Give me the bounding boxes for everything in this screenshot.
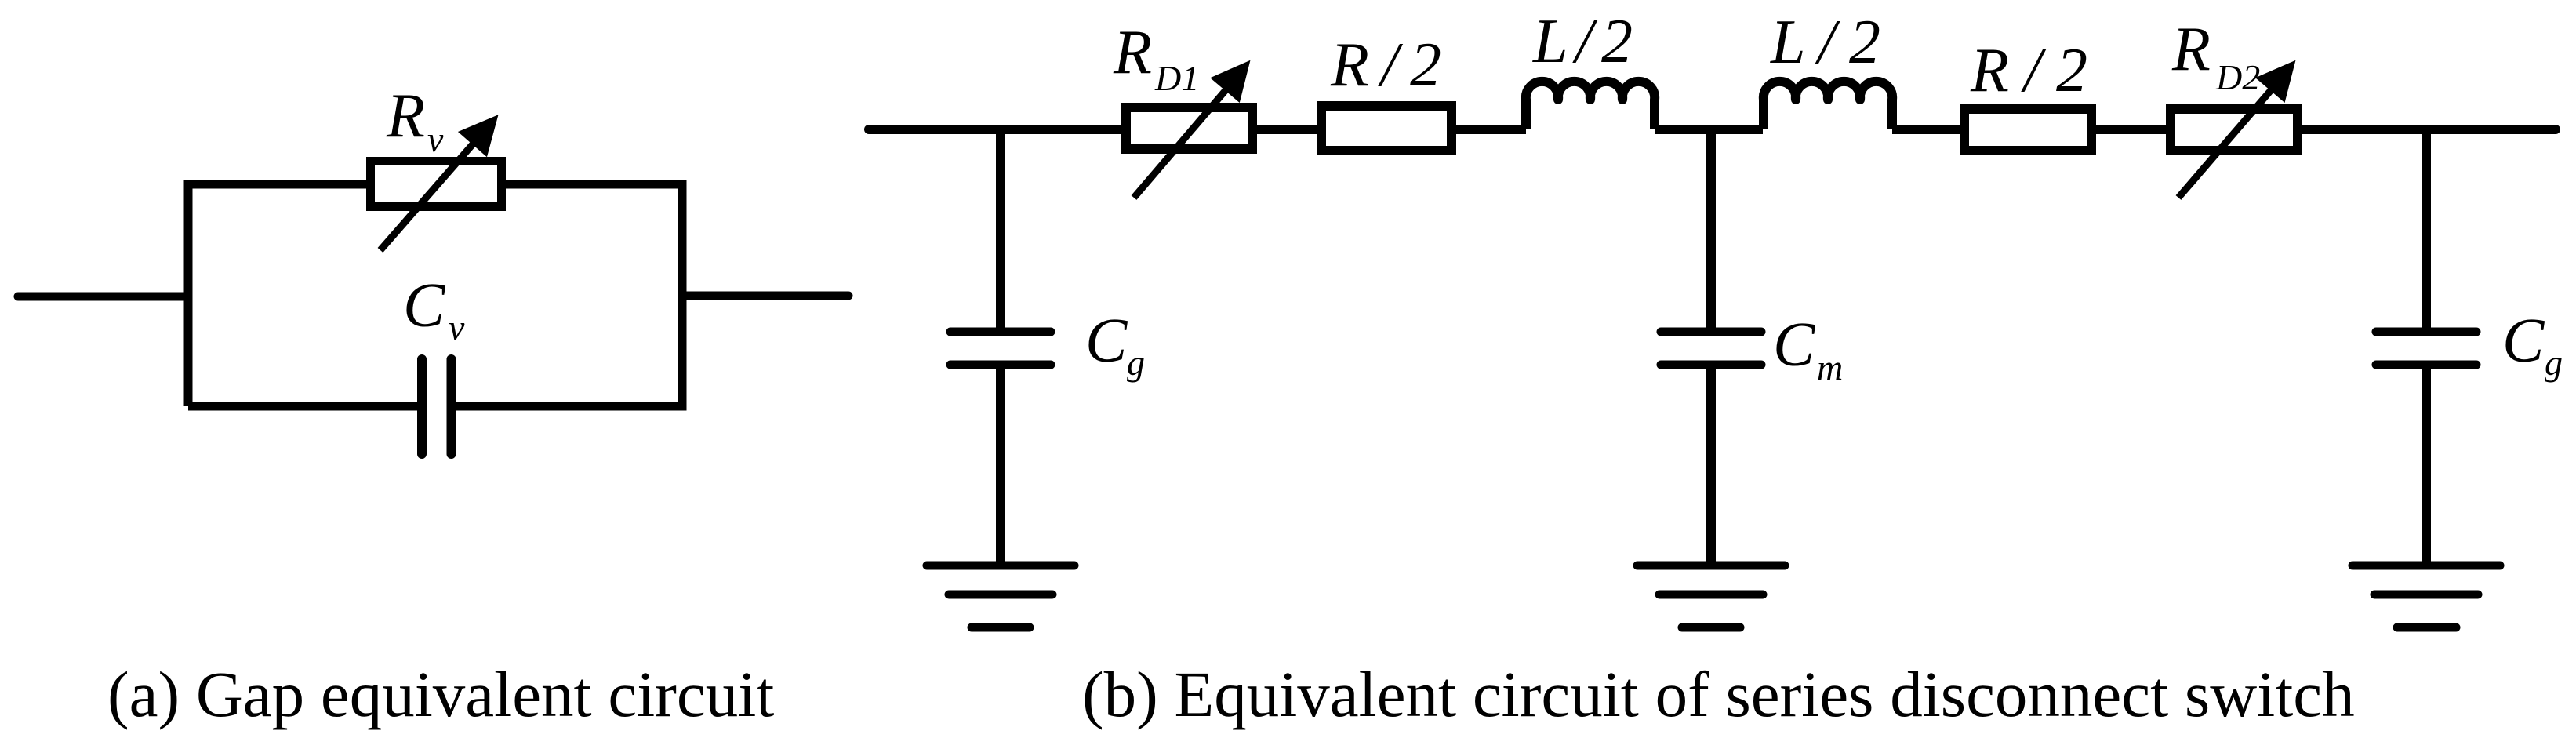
svg-text:C: C bbox=[1085, 307, 1128, 376]
svg-text:D2: D2 bbox=[2215, 57, 2260, 97]
wire left lead of switch circuit bbox=[869, 125, 1121, 134]
wire between inductors bbox=[1655, 125, 1763, 134]
wire Cg right to ground bbox=[2422, 365, 2431, 565]
arrowhead of RD2 bbox=[2257, 62, 2294, 102]
wire RD1 to R/2 bbox=[1252, 125, 1321, 134]
wire R/2 right to RD2 bbox=[2091, 125, 2171, 134]
wire top branch of gap circuit loop bbox=[188, 184, 370, 406]
arrow of variable resistor RD2 bbox=[2178, 90, 2271, 198]
svg-text:R: R bbox=[1113, 18, 1152, 87]
ground right bbox=[2353, 565, 2500, 627]
svg-text:v: v bbox=[427, 119, 444, 159]
svg-text:g: g bbox=[2545, 343, 2563, 383]
resistor RD1 bbox=[1126, 107, 1252, 149]
resistor Rv bbox=[371, 162, 502, 207]
svg-text:C: C bbox=[2502, 307, 2545, 376]
svg-text:m: m bbox=[1817, 347, 1843, 387]
svg-text:R / 2: R / 2 bbox=[1970, 36, 2087, 105]
node left shunt branch bbox=[996, 129, 1005, 328]
inductor L/2 right bbox=[1764, 82, 1892, 129]
capacitor Cv bbox=[422, 359, 452, 454]
ground left bbox=[927, 565, 1074, 627]
wire R/2 to inductor L/2 left bbox=[1451, 125, 1526, 134]
node right shunt branch bbox=[2422, 129, 2431, 328]
resistor R/2 left bbox=[1321, 106, 1451, 151]
wire Cg left to ground bbox=[996, 365, 1005, 565]
wire right side of gap circuit loop bbox=[456, 184, 682, 406]
svg-text:(b) Equivalent circuit of seri: (b) Equivalent circuit of series disconn… bbox=[1082, 658, 2355, 730]
wire Cm to ground bbox=[1706, 365, 1716, 565]
ground middle bbox=[1637, 565, 1785, 627]
svg-text:L / 2: L / 2 bbox=[1770, 8, 1880, 77]
wire right lead of switch circuit bbox=[2298, 125, 2556, 134]
svg-text:(a) Gap equivalent circuit: (a) Gap equivalent circuit bbox=[107, 658, 774, 730]
node middle shunt branch bbox=[1706, 129, 1716, 328]
inductor L/2 left bbox=[1526, 82, 1655, 129]
arrowhead of RD1 bbox=[1212, 62, 1249, 102]
capacitor Cg right bbox=[2376, 332, 2476, 365]
svg-text:R: R bbox=[386, 82, 425, 151]
resistor R/2 right bbox=[1964, 109, 2091, 151]
svg-text:D1: D1 bbox=[1154, 58, 1199, 98]
svg-text:C: C bbox=[1773, 311, 1816, 380]
svg-text:C: C bbox=[403, 271, 446, 340]
capacitor Cg left bbox=[950, 332, 1051, 365]
capacitor Cm bbox=[1661, 332, 1761, 365]
svg-text:v: v bbox=[449, 307, 465, 347]
wire inductor to R/2 right bbox=[1892, 125, 1964, 134]
svg-text:R / 2: R / 2 bbox=[1330, 31, 1441, 100]
svg-text:L / 2: L / 2 bbox=[1532, 7, 1633, 76]
svg-text:R: R bbox=[2171, 15, 2211, 84]
wire bottom-left branch to capacitor Cv bbox=[188, 402, 418, 411]
wire right lead of gap circuit bbox=[682, 292, 848, 300]
svg-text:g: g bbox=[1127, 343, 1145, 383]
arrow of variable resistor Rv bbox=[380, 140, 477, 250]
arrow of variable resistor RD1 bbox=[1134, 90, 1226, 198]
resistor RD2 bbox=[2171, 109, 2298, 151]
arrowhead of Rv bbox=[460, 116, 497, 156]
wire left lead of gap circuit bbox=[18, 293, 188, 301]
